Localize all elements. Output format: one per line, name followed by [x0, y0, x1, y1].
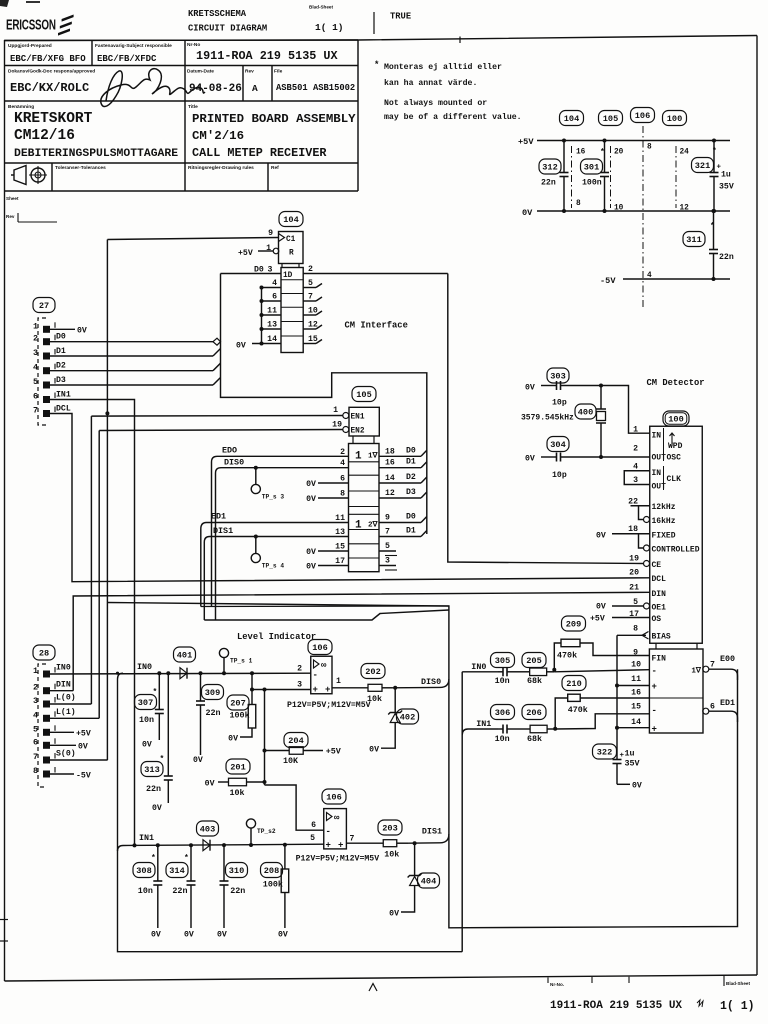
junction crystal top — [599, 384, 603, 388]
svg-text:-: - — [313, 671, 318, 681]
IN1 wire level indicator — [118, 844, 324, 851]
junction C313 — [166, 671, 170, 675]
svg-text:5: 5 — [33, 377, 38, 387]
IC105 pin 14 wire to bus — [379, 482, 421, 484]
junction at 617,685.5 — [615, 684, 619, 688]
svg-text:400: 400 — [578, 408, 593, 418]
svg-text:0V: 0V — [184, 931, 194, 940]
junction at 617,727.7 — [615, 726, 619, 730]
svg-text:10n: 10n — [138, 886, 153, 896]
IC100 OS wire — [612, 617, 650, 619]
svg-text:6: 6 — [33, 392, 38, 402]
svg-text:314: 314 — [169, 866, 184, 876]
svg-text:Nr-No.: Nr-No. — [550, 982, 564, 987]
IC105 pin 5 stub — [379, 550, 396, 552]
wire EN1 — [91, 415, 342, 418]
wire DIS0 to bus — [392, 679, 449, 688]
Ericsson three-bar logo — [62, 15, 74, 22]
svg-text:CM Detector: CM Detector — [647, 378, 705, 388]
svg-text:IN0: IN0 — [137, 662, 152, 672]
svg-text:TRUE: TRUE — [390, 12, 411, 22]
svg-text:1: 1 — [336, 677, 341, 686]
IC105 pin 16 wire to bus — [379, 467, 421, 469]
wire B to comparator plus — [252, 689, 311, 691]
junction pin2 node — [599, 455, 603, 459]
svg-text:Rev: Rev — [245, 69, 254, 75]
svg-text:12: 12 — [680, 205, 690, 213]
svg-text:+5V: +5V — [590, 615, 605, 624]
boundary dash line IC100 — [675, 146, 677, 208]
wire DIS1 to bus — [408, 834, 449, 843]
wire pin1 to 0V — [50, 328, 75, 330]
capacitor C311 capsule — [683, 232, 705, 247]
svg-text:0V: 0V — [596, 532, 606, 541]
capacitor C308 capsule — [133, 863, 155, 878]
svg-text:KRETSKORT: KRETSKORT — [14, 111, 93, 127]
svg-text:104: 104 — [564, 114, 579, 124]
svg-text:307: 307 — [138, 698, 153, 708]
svg-text:100: 100 — [668, 415, 683, 425]
svg-text:IN1: IN1 — [56, 390, 71, 399]
svg-text:12: 12 — [385, 489, 395, 498]
svg-text:18: 18 — [628, 525, 638, 534]
capacitor C301 capsule — [581, 159, 603, 174]
test point TP_s4 — [251, 537, 284, 570]
svg-text:D1: D1 — [406, 527, 416, 536]
IC104 grounded input strap — [260, 286, 282, 344]
svg-text:0V: 0V — [78, 743, 88, 752]
svg-text:313: 313 — [144, 765, 159, 775]
resistor R203 capsule — [378, 820, 402, 835]
svg-text:27: 27 — [39, 301, 49, 311]
wire R207 top — [251, 673, 253, 704]
wire divider to comp2 minus — [265, 785, 324, 830]
svg-text:28: 28 — [39, 649, 49, 659]
svg-text:+5V: +5V — [76, 730, 91, 739]
svg-text:5: 5 — [310, 834, 315, 843]
svg-text:470k: 470k — [557, 651, 577, 661]
svg-text:∞: ∞ — [334, 813, 340, 823]
svg-text:207: 207 — [230, 699, 245, 709]
IC104 pin2 wire to bus2 — [303, 273, 448, 275]
capsule 104 (power) — [560, 111, 584, 126]
resistor R210 470k — [555, 694, 649, 728]
svg-text:ED1: ED1 — [211, 512, 226, 522]
svg-text:208: 208 — [264, 866, 279, 876]
frame tick top — [459, 37, 461, 44]
junction DCL crossing — [105, 411, 109, 415]
svg-text:IN0: IN0 — [471, 662, 486, 672]
capacitor C314 22n — [187, 845, 196, 928]
svg-text:8: 8 — [576, 200, 581, 208]
svg-text:13: 13 — [267, 321, 277, 330]
bus2 vertical (D0 to CE) — [448, 274, 643, 564]
bus1 polyline (data bus) — [221, 274, 427, 535]
svg-text:ED1: ED1 — [720, 698, 735, 708]
svg-text:OE1: OE1 — [652, 604, 667, 613]
svg-text:22n: 22n — [230, 886, 245, 896]
svg-text:7: 7 — [33, 752, 38, 762]
junction C310 — [222, 843, 226, 847]
svg-text:CE: CE — [652, 561, 662, 570]
svg-text:94-08-26: 94-08-26 — [189, 83, 242, 95]
svg-text:*: * — [374, 60, 379, 70]
svg-text:16kHz: 16kHz — [652, 517, 676, 526]
junction at 713.5,279 — [712, 277, 716, 281]
comparator U106b body — [324, 809, 347, 851]
svg-text:+: + — [325, 685, 330, 695]
svg-text:Ref: Ref — [271, 165, 279, 171]
wire ED1 to bus — [709, 711, 738, 722]
svg-text:2: 2 — [340, 448, 345, 457]
svg-text:305: 305 — [495, 656, 510, 666]
svg-text:6: 6 — [272, 293, 277, 302]
projection symbol — [11, 166, 47, 185]
svg-text:may be of a different value.: may be of a different value. — [384, 112, 522, 122]
capsule 105 (power) — [599, 111, 623, 126]
bus entry diamond D0 — [213, 338, 221, 345]
svg-text:0V: 0V — [525, 455, 535, 464]
junction R208 — [283, 843, 287, 847]
wire S(0) conn28 — [50, 759, 108, 761]
capacitor C305 capsule — [491, 653, 515, 668]
capacitor C307 10n — [155, 673, 164, 740]
connector 28 pin 2 — [33, 683, 55, 695]
svg-text:Nr-No: Nr-No — [187, 42, 200, 48]
ED1 output bubble pin6 — [703, 708, 709, 714]
svg-text:CIRCUIT DIAGRAM: CIRCUIT DIAGRAM — [188, 24, 267, 34]
svg-text:0V: 0V — [151, 931, 161, 940]
scan artifact corner — [0, 0, 9, 7]
IC100 OE1 bubble — [644, 603, 650, 609]
frame tick left a — [0, 919, 8, 921]
wire 205 to pin10 — [554, 670, 649, 672]
svg-text:-5V: -5V — [600, 276, 616, 286]
wire DIS1 into pin13 — [204, 537, 348, 543]
svg-text:DIS1: DIS1 — [213, 526, 233, 536]
svg-text:A: A — [252, 83, 258, 94]
resistor R202 10k — [332, 684, 392, 691]
svg-text:5: 5 — [33, 724, 38, 734]
zener D402 — [381, 688, 402, 748]
svg-text:1u: 1u — [721, 171, 731, 180]
capacitor C322 capsule — [593, 744, 617, 759]
capacitor C313 22n — [164, 673, 173, 803]
junction at 264.5,750.5 — [263, 749, 267, 753]
junction at 264.5,689.5 — [263, 688, 267, 692]
svg-text:Rev: Rev — [6, 214, 15, 219]
svg-text:10n: 10n — [495, 676, 510, 686]
svg-text:8: 8 — [33, 766, 38, 776]
svg-text:0V: 0V — [306, 495, 316, 504]
wire ED1 drop — [200, 529, 202, 607]
svg-text:0V: 0V — [152, 804, 162, 813]
diode D403 capsule — [197, 821, 219, 836]
svg-text:322: 322 — [597, 748, 612, 758]
svg-text:ASB501 ASB15002: ASB501 ASB15002 — [276, 83, 355, 93]
wire L(0) conn28 — [50, 703, 91, 705]
svg-text:D1: D1 — [406, 458, 416, 467]
svg-text:209: 209 — [566, 620, 581, 630]
svg-text:File: File — [274, 69, 283, 75]
junction at 555.2,728.8 — [553, 727, 557, 731]
svg-text:2: 2 — [297, 665, 302, 674]
svg-text:15: 15 — [335, 543, 345, 552]
capacitor C321 capsule — [692, 158, 714, 173]
junction at 251,845 — [249, 843, 253, 847]
capacitor C314 capsule — [166, 863, 188, 878]
connector 28 pin 3 — [33, 696, 55, 708]
svg-text:206: 206 — [526, 708, 541, 718]
junction at 264.5,782 — [263, 780, 267, 784]
svg-text:9: 9 — [268, 229, 273, 238]
capacitor C304 10p — [541, 453, 650, 462]
svg-text:P12V=P5V;M12V=M5V: P12V=P5V;M12V=M5V — [296, 855, 380, 864]
wire 0V pin17 — [318, 565, 349, 567]
svg-text:Level Indicator: Level Indicator — [237, 632, 316, 642]
connector 28 capsule — [33, 645, 55, 660]
capsule 100 (power) — [663, 111, 687, 126]
svg-text:*: * — [151, 854, 156, 863]
resistor R208 capsule — [261, 863, 283, 878]
0V rail — [537, 210, 730, 212]
svg-text:201: 201 — [230, 763, 245, 773]
capsule 106 (power) — [631, 108, 655, 123]
svg-text:14: 14 — [267, 335, 277, 344]
svg-text:1D: 1D — [283, 272, 293, 280]
svg-text:3: 3 — [297, 681, 302, 690]
svg-text:0V: 0V — [596, 603, 606, 612]
svg-text:OSC: OSC — [667, 454, 682, 463]
title block outer — [5, 40, 359, 191]
svg-text:3: 3 — [33, 348, 38, 358]
BIAS vertical — [616, 635, 618, 758]
IC100 pin22 wire loop to 16kHz — [631, 505, 650, 507]
svg-text:DEBITERINGSPULSMOTTAGARE: DEBITERINGSPULSMOTTAGARE — [14, 148, 178, 160]
IC105 pin 3 stub — [379, 565, 396, 567]
connector 28 pin 5 — [33, 724, 55, 736]
resistor R207 100k — [240, 705, 256, 738]
svg-text:4: 4 — [272, 279, 277, 288]
svg-text:24: 24 — [680, 149, 690, 157]
wire EN2 vertical from conn28 L(1) — [98, 431, 100, 719]
wire IN1 row — [462, 729, 498, 735]
test point TP_s2 — [246, 819, 275, 845]
svg-text:+: + — [326, 841, 331, 851]
svg-text:P12V=P5V;M12V=M5V: P12V=P5V;M12V=M5V — [287, 701, 371, 710]
svg-text:-: - — [652, 706, 657, 716]
svg-text:0V: 0V — [77, 327, 87, 336]
svg-text:304: 304 — [550, 440, 565, 450]
svg-text:IN: IN — [652, 432, 662, 441]
svg-text:4: 4 — [33, 363, 38, 373]
capacitor C303 capsule — [547, 368, 569, 383]
svg-text:3: 3 — [385, 557, 390, 566]
svg-text:DIS0: DIS0 — [421, 677, 441, 687]
svg-text:Datum-Date: Datum-Date — [187, 69, 214, 75]
boundary dash line IC105 — [610, 146, 612, 208]
svg-text:OUT: OUT — [652, 454, 667, 463]
svg-text:1: 1 — [33, 666, 38, 676]
page frame left border — [4, 40, 6, 981]
svg-text:0V: 0V — [142, 741, 152, 750]
svg-text:0V: 0V — [306, 480, 316, 489]
svg-text:204: 204 — [288, 736, 303, 746]
svg-text:8: 8 — [340, 490, 345, 499]
resistor R205 capsule — [522, 653, 546, 668]
svg-text:9: 9 — [385, 514, 390, 523]
zener D402 capsule — [397, 709, 419, 724]
zener D404 — [401, 843, 422, 912]
svg-text:TP_s 3: TP_s 3 — [262, 494, 285, 501]
IC105 pin 7 wire to bus — [379, 536, 421, 538]
svg-text:0V: 0V — [369, 746, 379, 755]
svg-text:4: 4 — [647, 272, 652, 280]
IC104 reset bubble R — [273, 248, 279, 254]
svg-text:1( 1): 1( 1) — [720, 1000, 755, 1013]
capacitor C312 22n — [560, 141, 569, 212]
svg-text:470k: 470k — [568, 705, 588, 715]
svg-text:1911-ROA 219 5135 UX: 1911-ROA 219 5135 UX — [196, 49, 339, 63]
resistor R210 capsule — [562, 676, 586, 691]
IC104 clock triangle C1 — [279, 234, 285, 242]
svg-text:CM'2/16: CM'2/16 — [192, 129, 244, 143]
svg-text:1: 1 — [333, 406, 338, 415]
wire clock to IC104 pin9 — [107, 238, 278, 240]
svg-text:CALL METEP RECEIVER: CALL METEP RECEIVER — [192, 146, 327, 160]
junction C308 — [156, 843, 160, 847]
IC100 CONTROLLED bubble — [644, 545, 650, 551]
svg-text:BIAS: BIAS — [652, 633, 671, 642]
IC104 right stub pins — [303, 284, 322, 344]
svg-text:IN0: IN0 — [56, 664, 71, 673]
svg-text:311: 311 — [686, 235, 701, 245]
svg-text:IN1: IN1 — [139, 833, 154, 843]
svg-text:19: 19 — [332, 421, 342, 430]
IC100 16kHz bubble — [644, 517, 650, 523]
wire DIS0 drop — [215, 473, 217, 620]
capacitor C322 1u — [613, 758, 622, 784]
svg-text:20: 20 — [614, 149, 624, 157]
IC105 enable block — [349, 407, 379, 443]
svg-text:11: 11 — [267, 307, 277, 316]
svg-text:+: + — [338, 841, 343, 851]
svg-text:2: 2 — [633, 445, 638, 454]
IC105 pin 9 wire to bus — [379, 522, 421, 524]
svg-text:4: 4 — [33, 710, 38, 720]
wire L(1) conn28 — [50, 717, 99, 719]
capacitor C308 10n — [153, 845, 162, 928]
svg-text:8: 8 — [633, 625, 638, 634]
IC100 OE1 wire — [612, 605, 643, 607]
capacitor C309 22n — [196, 673, 205, 755]
svg-text:7: 7 — [308, 293, 313, 302]
svg-text:DCL: DCL — [56, 404, 71, 413]
junction at 252,689.5 — [250, 688, 254, 692]
svg-text:Fastenavarig-Subject responsib: Fastenavarig-Subject responsible — [95, 43, 172, 49]
svg-text:35V: 35V — [625, 759, 641, 769]
svg-text:FIN: FIN — [652, 655, 667, 664]
diode D403 — [203, 840, 210, 851]
svg-text:10k: 10k — [230, 788, 245, 798]
capacitor C306 capsule — [491, 705, 515, 720]
IC104 main block — [281, 268, 303, 353]
svg-text:WPD: WPD — [668, 442, 683, 451]
svg-text:Monteras ej alltid eller: Monteras ej alltid eller — [384, 62, 502, 72]
svg-text:CONTROLLED: CONTROLLED — [652, 546, 700, 555]
clock/select vertical — [106, 240, 108, 761]
wire 0V pin15 — [318, 550, 349, 552]
svg-text:Benämning: Benämning — [8, 104, 34, 110]
svg-text:10K: 10K — [283, 756, 299, 766]
IC105 EN1 bubble — [343, 413, 349, 419]
svg-text:104: 104 — [283, 215, 298, 225]
connector 28 dashed body — [38, 664, 46, 787]
footer tick a — [591, 977, 593, 983]
bus entry D1 — [213, 349, 221, 357]
resistor R209 470k — [554, 639, 649, 670]
connector 27 pin 3 — [33, 348, 55, 360]
svg-text:Ritningsregler-Drawing rules: Ritningsregler-Drawing rules — [188, 165, 254, 171]
svg-text:10p: 10p — [552, 471, 567, 480]
svg-text:7: 7 — [385, 528, 390, 537]
divider vertical — [264, 690, 266, 786]
wire 0V pin8 — [318, 497, 349, 499]
boundary dash line IC106 — [642, 126, 644, 310]
bus entry D3 — [213, 378, 221, 386]
svg-text:*: * — [153, 688, 158, 697]
svg-text:401: 401 — [177, 651, 192, 661]
svg-text:1( 1): 1( 1) — [315, 22, 344, 33]
IC100 pin18 wire — [612, 533, 650, 535]
svg-text:14: 14 — [631, 718, 641, 727]
svg-text:2: 2 — [33, 334, 38, 344]
svg-text:CLK: CLK — [667, 475, 682, 484]
svg-text:D3: D3 — [406, 488, 416, 497]
svg-text:Toleranser-Tolerances: Toleranser-Tolerances — [55, 165, 106, 171]
resistor R209 capsule — [562, 616, 586, 631]
wire EN2 — [99, 430, 343, 431]
svg-text:IN1: IN1 — [476, 719, 491, 729]
svg-text:14: 14 — [385, 474, 395, 483]
IC100 body — [650, 426, 703, 643]
svg-text:402: 402 — [400, 713, 415, 723]
capacitor C310 22n — [220, 845, 229, 928]
capacitor C310 capsule — [226, 863, 248, 878]
svg-text:106: 106 — [635, 111, 650, 121]
svg-text:12kHz: 12kHz — [652, 503, 676, 512]
svg-text:22n: 22n — [146, 784, 161, 794]
svg-text:0V: 0V — [522, 208, 533, 218]
svg-text:22n: 22n — [172, 886, 187, 896]
svg-text:310: 310 — [229, 866, 244, 876]
svg-text:S(0): S(0) — [56, 749, 76, 759]
connector 27 pin 4 — [33, 363, 55, 375]
capacitor C321 1u — [710, 141, 719, 212]
IN0 corner from bus — [461, 672, 463, 952]
svg-text:105: 105 — [356, 390, 371, 400]
svg-text:TP_s 1: TP_s 1 — [230, 658, 253, 665]
wire C322 to 0V — [617, 783, 630, 785]
IC U100 capsule — [663, 411, 689, 426]
resistor R206 capsule — [522, 705, 546, 720]
capacitor C313 capsule — [141, 762, 163, 777]
wire ED1 into pin11 — [201, 523, 349, 530]
svg-text:DIN: DIN — [56, 680, 71, 689]
connector 28 pin 8 — [33, 766, 55, 778]
capacitor C301 100n — [600, 141, 609, 212]
svg-text:15: 15 — [631, 703, 641, 712]
